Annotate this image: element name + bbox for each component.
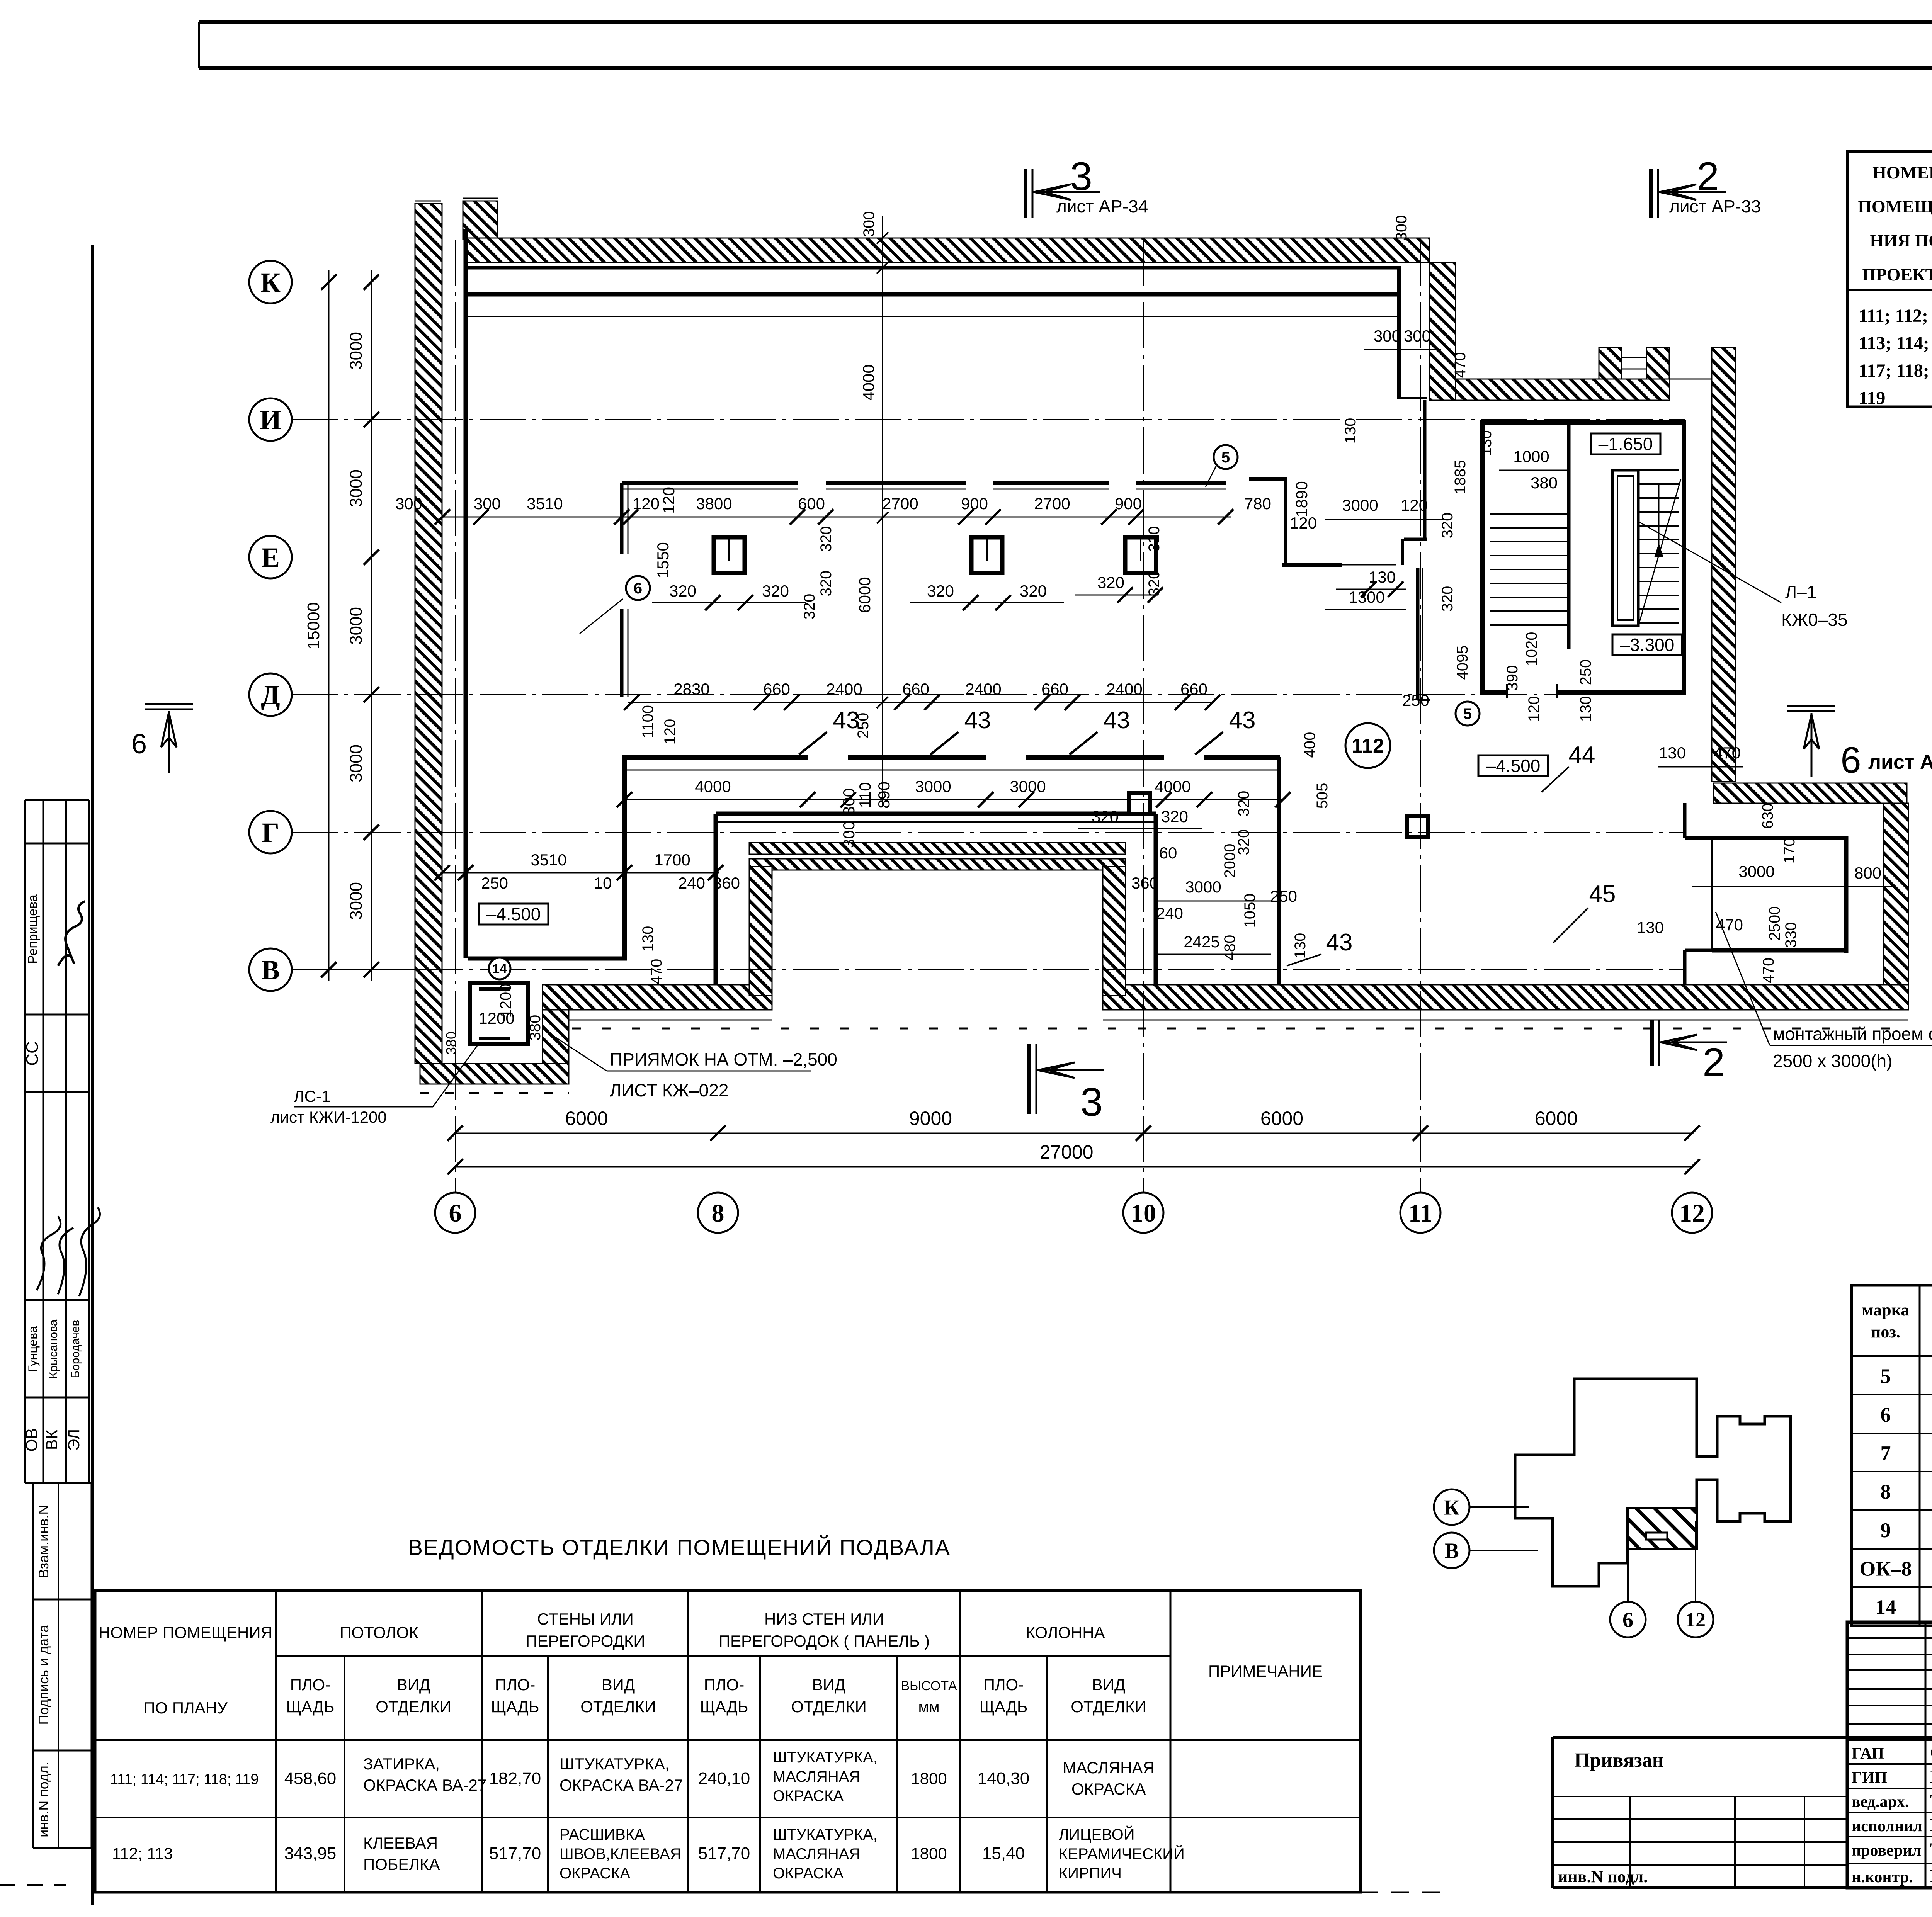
svg-text:380: 380 xyxy=(527,1015,544,1041)
svg-text:300: 300 xyxy=(1374,327,1401,345)
svg-text:2700: 2700 xyxy=(882,495,918,513)
svg-text:ВИД: ВИД xyxy=(812,1676,846,1694)
svg-text:6: 6 xyxy=(1881,1403,1891,1426)
svg-text:ОКРАСКА: ОКРАСКА xyxy=(773,1788,844,1805)
svg-text:14: 14 xyxy=(1875,1596,1896,1619)
svg-text:ПОБЕЛКА: ПОБЕЛКА xyxy=(363,1855,440,1873)
svg-text:250: 250 xyxy=(1270,887,1297,905)
svg-text:6000: 6000 xyxy=(1260,1108,1303,1129)
svg-text:Талызина: Талызина xyxy=(1930,1791,1932,1811)
svg-text:320: 320 xyxy=(1020,582,1047,600)
svg-text:240: 240 xyxy=(678,874,705,892)
svg-text:3000: 3000 xyxy=(1738,862,1774,880)
svg-text:10: 10 xyxy=(594,874,612,892)
svg-text:Смирнов: Смирнов xyxy=(1930,1742,1932,1763)
svg-text:140,30: 140,30 xyxy=(978,1769,1030,1788)
svg-text:380: 380 xyxy=(443,1032,459,1055)
svg-text:320: 320 xyxy=(1439,513,1456,539)
svg-text:ОКРАСКА: ОКРАСКА xyxy=(1071,1780,1146,1798)
svg-text:ПЛО-: ПЛО- xyxy=(290,1676,330,1694)
svg-text:ПОМЕЩЕ–: ПОМЕЩЕ– xyxy=(1858,197,1932,216)
svg-text:ЛС-1: ЛС-1 xyxy=(294,1087,330,1105)
svg-text:проверил: проверил xyxy=(1852,1842,1921,1859)
svg-text:320: 320 xyxy=(1235,791,1252,817)
svg-text:Каледина: Каледина xyxy=(1930,1767,1932,1787)
svg-text:исполнил: исполнил xyxy=(1852,1817,1922,1835)
svg-text:3000: 3000 xyxy=(347,607,366,645)
svg-text:2500: 2500 xyxy=(1766,906,1783,941)
svg-text:1800: 1800 xyxy=(911,1844,947,1863)
svg-text:ЭЛ: ЭЛ xyxy=(65,1429,83,1451)
svg-text:МАСЛЯНАЯ: МАСЛЯНАЯ xyxy=(773,1846,860,1863)
svg-text:ЩАДЬ: ЩАДЬ xyxy=(491,1698,539,1716)
svg-text:ЩАДЬ: ЩАДЬ xyxy=(980,1698,1028,1716)
svg-text:ОКРАСКА: ОКРАСКА xyxy=(773,1865,844,1882)
svg-text:250: 250 xyxy=(1577,659,1594,685)
svg-text:Реприщева: Реприщева xyxy=(26,894,40,964)
svg-text:120: 120 xyxy=(660,487,678,514)
svg-text:9000: 9000 xyxy=(909,1108,952,1129)
svg-text:3000: 3000 xyxy=(347,882,366,920)
svg-text:4000: 4000 xyxy=(859,364,878,400)
svg-text:182,70: 182,70 xyxy=(489,1769,541,1788)
svg-text:Талызина: Талызина xyxy=(1930,1839,1932,1860)
svg-text:130: 130 xyxy=(1637,918,1664,936)
svg-text:2700: 2700 xyxy=(1034,495,1070,513)
svg-text:КОЛОННА: КОЛОННА xyxy=(1026,1623,1105,1642)
svg-text:1200: 1200 xyxy=(497,984,514,1018)
svg-text:3510: 3510 xyxy=(531,851,566,869)
svg-text:В: В xyxy=(261,955,280,986)
svg-text:5: 5 xyxy=(1463,705,1472,722)
svg-text:300: 300 xyxy=(474,495,501,513)
svg-text:Взам.инв.N: Взам.инв.N xyxy=(36,1505,51,1578)
svg-text:И: И xyxy=(260,404,281,435)
svg-text:2425: 2425 xyxy=(1184,933,1219,951)
svg-text:470: 470 xyxy=(648,959,665,985)
svg-text:Д: Д xyxy=(261,680,280,710)
svg-text:12: 12 xyxy=(1685,1609,1706,1631)
svg-text:ВЕДОМОСТЬ ОТДЕЛКИ ПОМЕЩЕНИЙ: ВЕДОМОСТЬ ОТДЕЛКИ ПОМЕЩЕНИЙ ПОДВАЛА xyxy=(408,1535,951,1560)
svg-text:7: 7 xyxy=(1881,1442,1891,1465)
svg-text:390: 390 xyxy=(1504,665,1521,691)
svg-text:360: 360 xyxy=(713,874,740,892)
svg-text:458,60: 458,60 xyxy=(284,1769,337,1788)
svg-text:лист АР-33: лист АР-33 xyxy=(1669,196,1761,216)
svg-text:К: К xyxy=(1444,1496,1460,1520)
svg-text:3000: 3000 xyxy=(1185,878,1221,896)
svg-text:6000: 6000 xyxy=(565,1108,608,1129)
svg-text:НОМЕР ПОМЕЩЕНИЯ: НОМЕР ПОМЕЩЕНИЯ xyxy=(99,1623,272,1642)
svg-text:660: 660 xyxy=(763,680,790,698)
svg-text:517,70: 517,70 xyxy=(698,1844,750,1863)
svg-text:3800: 3800 xyxy=(696,495,732,513)
svg-text:800: 800 xyxy=(1854,864,1881,882)
svg-text:ПО ПЛАНУ: ПО ПЛАНУ xyxy=(143,1699,228,1717)
svg-text:320: 320 xyxy=(1092,807,1119,826)
svg-text:320: 320 xyxy=(669,582,696,600)
svg-text:В: В xyxy=(1444,1539,1459,1563)
svg-text:110: 110 xyxy=(856,782,874,808)
svg-text:ВИД: ВИД xyxy=(602,1676,635,1694)
svg-text:ПЛО-: ПЛО- xyxy=(495,1676,535,1694)
svg-text:ОТДЕЛКИ: ОТДЕЛКИ xyxy=(1071,1698,1146,1716)
svg-text:3510: 3510 xyxy=(527,495,563,513)
svg-text:Е: Е xyxy=(261,542,280,573)
svg-text:320: 320 xyxy=(1235,829,1252,855)
svg-text:3000: 3000 xyxy=(347,744,366,782)
svg-text:400: 400 xyxy=(1301,732,1318,758)
svg-text:1300: 1300 xyxy=(1349,588,1384,606)
svg-text:ПЕРЕГОРОДОК ( ПАНЕЛЬ ): ПЕРЕГОРОДОК ( ПАНЕЛЬ ) xyxy=(719,1632,930,1650)
svg-text:поз.: поз. xyxy=(1871,1322,1900,1341)
svg-text:117; 118;: 117; 118; xyxy=(1859,360,1929,381)
svg-text:250: 250 xyxy=(1402,691,1429,709)
svg-text:320: 320 xyxy=(818,571,835,597)
svg-text:630: 630 xyxy=(1759,803,1776,829)
svg-text:320: 320 xyxy=(1146,526,1163,552)
svg-text:ПЛО-: ПЛО- xyxy=(704,1676,744,1694)
svg-text:3000: 3000 xyxy=(1010,777,1046,795)
svg-text:11: 11 xyxy=(1408,1199,1432,1227)
svg-text:1885: 1885 xyxy=(1452,460,1469,495)
svg-text:Привязан: Привязан xyxy=(1574,1749,1664,1771)
svg-text:ПРОЕКТУ: ПРОЕКТУ xyxy=(1862,265,1932,284)
svg-text:3000: 3000 xyxy=(1342,496,1378,514)
svg-text:КИРПИЧ: КИРПИЧ xyxy=(1059,1865,1122,1882)
svg-text:130: 130 xyxy=(1478,430,1495,456)
svg-text:ПЛО-: ПЛО- xyxy=(983,1676,1024,1694)
svg-text:120: 120 xyxy=(1290,514,1317,532)
svg-text:900: 900 xyxy=(1115,495,1142,513)
svg-text:ЗАТИРКА,: ЗАТИРКА, xyxy=(363,1755,440,1773)
svg-text:119: 119 xyxy=(1859,388,1885,408)
svg-text:ВК: ВК xyxy=(43,1429,61,1450)
svg-text:ВИД: ВИД xyxy=(397,1676,430,1694)
svg-text:343,95: 343,95 xyxy=(284,1844,337,1863)
svg-text:НОМЕР: НОМЕР xyxy=(1872,163,1932,182)
svg-text:КЕРАМИЧЕСКИЙ: КЕРАМИЧЕСКИЙ xyxy=(1059,1845,1185,1863)
svg-text:240: 240 xyxy=(1156,904,1183,922)
svg-text:300: 300 xyxy=(1393,215,1410,241)
svg-text:ОКРАСКА: ОКРАСКА xyxy=(560,1865,630,1882)
svg-text:320: 320 xyxy=(1146,571,1163,597)
svg-text:н.контр.: н.контр. xyxy=(1852,1868,1913,1886)
svg-text:ШТУКАТУРКА,: ШТУКАТУРКА, xyxy=(773,1826,878,1843)
svg-text:лист КЖИ-1200: лист КЖИ-1200 xyxy=(270,1108,387,1126)
svg-text:ШВОВ,КЛЕЕВАЯ: ШВОВ,КЛЕЕВАЯ xyxy=(560,1846,681,1863)
svg-text:вед.арх.: вед.арх. xyxy=(1852,1793,1909,1811)
svg-text:130: 130 xyxy=(1577,696,1594,722)
svg-text:780: 780 xyxy=(1244,495,1271,513)
svg-text:К: К xyxy=(260,267,281,298)
svg-text:6: 6 xyxy=(634,580,642,597)
svg-text:4000: 4000 xyxy=(695,777,731,795)
svg-text:КЛЕЕВАЯ: КЛЕЕВАЯ xyxy=(363,1834,438,1852)
svg-text:15,40: 15,40 xyxy=(982,1844,1025,1863)
svg-text:1700: 1700 xyxy=(654,851,690,869)
svg-text:ОВ: ОВ xyxy=(22,1428,41,1452)
svg-text:ОК–8: ОК–8 xyxy=(1859,1557,1912,1581)
svg-text:ОКРАСКА ВА-27: ОКРАСКА ВА-27 xyxy=(560,1776,683,1794)
svg-text:45: 45 xyxy=(1589,881,1616,908)
svg-text:43: 43 xyxy=(1326,929,1353,956)
svg-text:130: 130 xyxy=(1659,744,1686,762)
svg-text:112: 112 xyxy=(1352,735,1384,757)
svg-text:27000: 27000 xyxy=(1039,1141,1093,1163)
svg-text:3000: 3000 xyxy=(347,332,366,370)
svg-text:ОТДЕЛКИ: ОТДЕЛКИ xyxy=(580,1698,656,1716)
svg-text:Бородачев: Бородачев xyxy=(69,1320,82,1378)
svg-text:инв.N подл.: инв.N подл. xyxy=(36,1762,51,1837)
svg-text:120: 120 xyxy=(633,495,660,513)
svg-text:15000: 15000 xyxy=(304,602,323,649)
svg-text:600: 600 xyxy=(798,495,825,513)
svg-text:320: 320 xyxy=(927,582,954,600)
svg-text:505: 505 xyxy=(1314,783,1331,809)
svg-text:3: 3 xyxy=(1070,154,1092,199)
svg-text:Гунцева: Гунцева xyxy=(26,1326,40,1372)
svg-text:2: 2 xyxy=(1697,154,1719,199)
svg-text:2500 х 3000(h): 2500 х 3000(h) xyxy=(1773,1051,1892,1071)
svg-text:470: 470 xyxy=(1714,744,1741,762)
svg-text:6: 6 xyxy=(1622,1608,1633,1632)
svg-text:111; 114; 117; 118; 119: 111; 114; 117; 118; 119 xyxy=(110,1771,259,1788)
svg-text:2400: 2400 xyxy=(826,680,862,698)
svg-text:СТЕНЫ ИЛИ: СТЕНЫ ИЛИ xyxy=(537,1610,634,1628)
svg-text:Романова: Романова xyxy=(1930,1866,1932,1886)
svg-text:монтажный проем ов: монтажный проем ов xyxy=(1773,1024,1932,1044)
svg-text:320: 320 xyxy=(801,594,818,620)
svg-text:12: 12 xyxy=(1679,1199,1705,1227)
svg-text:6: 6 xyxy=(449,1199,462,1227)
svg-text:130: 130 xyxy=(1369,568,1396,586)
svg-text:900: 900 xyxy=(961,495,988,513)
svg-text:250: 250 xyxy=(481,874,508,892)
svg-text:НИЗ СТЕН ИЛИ: НИЗ СТЕН ИЛИ xyxy=(764,1610,884,1628)
svg-text:8: 8 xyxy=(712,1199,724,1227)
svg-text:5: 5 xyxy=(1881,1365,1891,1388)
svg-text:330: 330 xyxy=(1782,922,1799,948)
svg-text:1550: 1550 xyxy=(654,542,672,578)
svg-text:лист АР-34: лист АР-34 xyxy=(1056,196,1148,216)
svg-text:360: 360 xyxy=(1131,874,1158,892)
svg-text:5: 5 xyxy=(1221,449,1230,466)
svg-text:ПЕРЕГОРОДКИ: ПЕРЕГОРОДКИ xyxy=(526,1632,645,1650)
svg-text:240,10: 240,10 xyxy=(698,1769,750,1788)
svg-text:470: 470 xyxy=(1452,352,1469,378)
svg-text:РАСШИВКА: РАСШИВКА xyxy=(560,1826,645,1843)
svg-text:6: 6 xyxy=(131,729,147,760)
svg-text:3: 3 xyxy=(1080,1080,1103,1125)
svg-text:43: 43 xyxy=(1104,707,1130,734)
svg-text:ЛИСТ КЖ–022: ЛИСТ КЖ–022 xyxy=(610,1080,728,1100)
svg-text:Л–1: Л–1 xyxy=(1785,582,1816,602)
svg-text:Г: Г xyxy=(262,817,279,848)
svg-text:ПОТОЛОК: ПОТОЛОК xyxy=(340,1623,418,1642)
svg-text:лист АР-36: лист АР-36 xyxy=(1868,751,1932,773)
svg-text:ШТУКАТУРКА,: ШТУКАТУРКА, xyxy=(773,1749,878,1766)
svg-text:300: 300 xyxy=(840,821,858,848)
svg-text:320: 320 xyxy=(1097,573,1124,591)
svg-text:мм: мм xyxy=(918,1699,940,1716)
svg-text:14: 14 xyxy=(492,962,507,976)
svg-text:ЛИЦЕВОЙ: ЛИЦЕВОЙ xyxy=(1059,1825,1134,1843)
svg-text:8: 8 xyxy=(1881,1480,1891,1503)
svg-text:1800: 1800 xyxy=(911,1769,947,1788)
svg-text:43: 43 xyxy=(964,707,991,734)
svg-text:Пескина: Пескина xyxy=(1930,1815,1932,1835)
svg-text:Крысанова: Крысанова xyxy=(47,1319,60,1378)
svg-text:890: 890 xyxy=(875,782,893,809)
svg-text:–4.500: –4.500 xyxy=(1486,756,1541,776)
svg-text:Подпись и дата: Подпись и дата xyxy=(36,1625,51,1725)
svg-text:МАСЛЯНАЯ: МАСЛЯНАЯ xyxy=(773,1768,860,1785)
svg-text:480: 480 xyxy=(1221,935,1238,961)
svg-text:130: 130 xyxy=(1292,933,1309,959)
svg-text:1020: 1020 xyxy=(1523,632,1540,666)
svg-text:ГАП: ГАП xyxy=(1852,1745,1884,1762)
svg-text:120: 120 xyxy=(1526,696,1543,722)
svg-text:130: 130 xyxy=(639,926,656,952)
svg-text:470: 470 xyxy=(1760,958,1777,984)
svg-text:2400: 2400 xyxy=(1106,680,1142,698)
svg-text:660: 660 xyxy=(1041,680,1068,698)
svg-text:470: 470 xyxy=(1716,916,1743,934)
svg-text:ПРИЯМОК НА ОТМ. –2,500: ПРИЯМОК НА ОТМ. –2,500 xyxy=(610,1049,837,1069)
svg-text:113; 114;: 113; 114; xyxy=(1859,333,1929,353)
svg-text:ШТУКАТУРКА,: ШТУКАТУРКА, xyxy=(560,1755,670,1773)
svg-text:660: 660 xyxy=(902,680,929,698)
svg-text:–1.650: –1.650 xyxy=(1599,434,1653,454)
svg-text:320: 320 xyxy=(1161,807,1188,826)
svg-text:517,70: 517,70 xyxy=(489,1844,541,1863)
svg-text:3000: 3000 xyxy=(347,469,366,507)
svg-text:ГИП: ГИП xyxy=(1852,1769,1887,1787)
svg-text:300: 300 xyxy=(861,211,878,237)
svg-text:2400: 2400 xyxy=(965,680,1001,698)
svg-text:ОТДЕЛКИ: ОТДЕЛКИ xyxy=(791,1698,867,1716)
svg-text:4000: 4000 xyxy=(1155,777,1190,795)
svg-text:–4.500: –4.500 xyxy=(486,904,541,924)
svg-text:380: 380 xyxy=(1531,474,1558,492)
svg-text:инв.N подл.: инв.N подл. xyxy=(1558,1867,1648,1886)
svg-text:10: 10 xyxy=(1131,1199,1156,1227)
svg-text:6: 6 xyxy=(1840,739,1861,781)
svg-text:6000: 6000 xyxy=(1535,1108,1578,1129)
svg-text:120: 120 xyxy=(1401,496,1428,514)
svg-text:300: 300 xyxy=(395,495,422,513)
svg-text:–3.300: –3.300 xyxy=(1620,635,1675,655)
svg-text:НИЯ ПО: НИЯ ПО xyxy=(1870,231,1932,250)
svg-text:1000: 1000 xyxy=(1513,447,1549,466)
svg-text:ПРИМЕЧАНИЕ: ПРИМЕЧАНИЕ xyxy=(1208,1662,1323,1680)
svg-text:КЖ0–35: КЖ0–35 xyxy=(1781,610,1848,630)
svg-text:1100: 1100 xyxy=(639,705,656,738)
svg-text:ОКРАСКА ВА-27: ОКРАСКА ВА-27 xyxy=(363,1776,486,1794)
svg-text:660: 660 xyxy=(1180,680,1207,698)
svg-text:300: 300 xyxy=(1404,327,1431,345)
svg-text:ВИД: ВИД xyxy=(1092,1676,1126,1694)
svg-text:320: 320 xyxy=(1439,586,1456,612)
svg-text:60: 60 xyxy=(1159,844,1177,862)
svg-text:1050: 1050 xyxy=(1242,894,1259,928)
svg-text:111; 112;: 111; 112; xyxy=(1859,306,1928,326)
svg-text:4095: 4095 xyxy=(1454,646,1471,680)
svg-text:ЩАДЬ: ЩАДЬ xyxy=(700,1698,748,1716)
svg-text:1890: 1890 xyxy=(1293,481,1311,517)
svg-text:120: 120 xyxy=(662,719,679,745)
svg-text:43: 43 xyxy=(1229,707,1256,734)
svg-text:ЩАДЬ: ЩАДЬ xyxy=(286,1698,335,1716)
svg-text:СС: СС xyxy=(23,1041,42,1066)
svg-text:170: 170 xyxy=(1781,838,1798,864)
svg-text:112; 113: 112; 113 xyxy=(112,1844,173,1863)
svg-text:марка: марка xyxy=(1862,1300,1910,1319)
svg-text:ОТДЕЛКИ: ОТДЕЛКИ xyxy=(376,1698,451,1716)
svg-text:ВЫСОТА: ВЫСОТА xyxy=(901,1679,957,1693)
svg-text:2: 2 xyxy=(1702,1040,1725,1085)
svg-text:43: 43 xyxy=(833,707,860,734)
svg-text:130: 130 xyxy=(1342,418,1359,444)
svg-text:2830: 2830 xyxy=(673,680,709,698)
svg-text:3000: 3000 xyxy=(915,777,951,795)
svg-text:300: 300 xyxy=(840,788,858,815)
svg-text:9: 9 xyxy=(1881,1519,1891,1542)
svg-text:МАСЛЯНАЯ: МАСЛЯНАЯ xyxy=(1063,1759,1155,1777)
svg-text:6000: 6000 xyxy=(855,577,874,613)
svg-text:320: 320 xyxy=(818,526,835,552)
svg-text:320: 320 xyxy=(762,582,789,600)
svg-text:44: 44 xyxy=(1569,742,1595,768)
